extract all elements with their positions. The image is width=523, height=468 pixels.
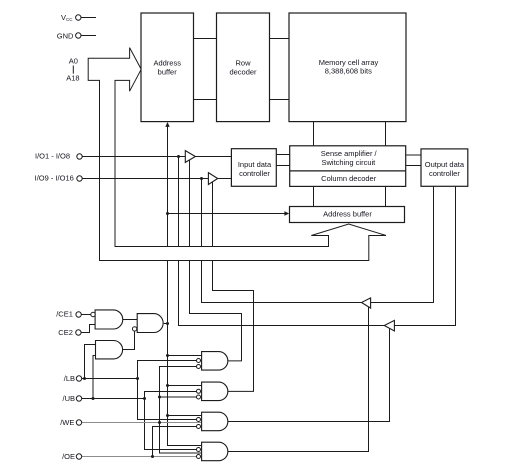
buffer B1 (I/O1 input buffer) — [185, 151, 195, 163]
wire gate G1 output to gate G2 — [123, 319, 138, 321]
wire sense amplifier to output data controller (lower) — [406, 165, 421, 167]
bubble G7 input 4 — [197, 455, 201, 459]
pin circle /UB — [76, 396, 81, 401]
wire /UB pin line — [82, 398, 145, 400]
wire /WE pin line (gray) — [82, 422, 202, 424]
wire V3 from input buffer B1 to gate G4 output — [190, 160, 242, 361]
wire /LB pin line — [82, 378, 138, 380]
junction dots — [83, 155, 203, 458]
svg-text:/UB: /UB — [62, 394, 75, 403]
arrowhead into top address buffer — [165, 122, 169, 127]
gate G7 — [202, 442, 228, 461]
wire V1 branch to gate G6 — [168, 415, 202, 417]
wire gate G2 output stub to V1 — [164, 323, 168, 325]
svg-text:A18: A18 — [66, 74, 79, 83]
wire row decoder to memory cell array (upper) — [270, 38, 290, 40]
node V1 branch G4 — [166, 354, 169, 357]
node I/O1 tap — [177, 155, 180, 158]
wire I/O9-I/O16 pin line — [82, 178, 208, 180]
svg-text:8,388,608 bits: 8,388,608 bits — [325, 66, 372, 75]
gate G2 — [137, 314, 163, 333]
wire input data controller to sense amplifier (upper) — [276, 154, 289, 156]
bubble G4 input 2 — [197, 359, 201, 363]
svg-text:Column decoder: Column decoder — [321, 174, 377, 183]
wire gate G7 output to output buffer T1 — [228, 307, 369, 452]
svg-text:A0: A0 — [69, 56, 78, 65]
pin circle /OE — [76, 454, 81, 459]
svg-text:controller: controller — [239, 169, 270, 178]
wire /WE branch to G5 bubble — [160, 396, 197, 398]
bubble G7 input 2 — [197, 448, 201, 452]
node V1 to lower address buffer line — [166, 212, 169, 215]
bubble G6 input 4 — [197, 425, 201, 429]
svg-text:Input data: Input data — [238, 160, 272, 169]
node I/O9 tap — [200, 177, 203, 180]
buffer B2 (I/O9 input buffer) — [208, 173, 217, 185]
svg-text:Address: Address — [153, 58, 181, 67]
svg-text:CE2: CE2 — [58, 328, 73, 337]
wire sense amplifier to output data controller (upper) — [406, 154, 421, 156]
svg-text:Switching circuit: Switching circuit — [322, 158, 377, 167]
node /OE branch — [151, 455, 154, 458]
wire V1 branch to gate G4 — [168, 355, 202, 357]
gate G6 — [202, 412, 228, 431]
pin circle CE2 — [76, 330, 81, 335]
svg-text:controller: controller — [429, 169, 460, 178]
arrowhead into lower address buffer — [284, 211, 289, 215]
buffer T1 (output buffer, points left) — [362, 298, 371, 308]
wire column decoder to lower address buffer (right) — [385, 186, 387, 206]
wire column decoder to lower address buffer (left) — [313, 186, 315, 206]
node /UB branch — [143, 397, 146, 400]
node /LB to G3 — [83, 377, 86, 380]
tick between A0 and A18 — [72, 66, 74, 74]
bubble G4 input 3 — [197, 365, 201, 369]
wire Vcc stub — [81, 17, 96, 19]
svg-text:buffer: buffer — [158, 68, 178, 77]
node G2 output joins V1 — [166, 322, 169, 325]
wire /CE1 pin to G1 bubble — [81, 314, 91, 316]
wire data tap V2 from I/O1 line to output buffer T2 — [179, 157, 385, 326]
divider sense amplifier / column decoder — [290, 170, 406, 172]
wire gate G3 input 1 from /LB — [85, 345, 96, 379]
pin circle /LB — [76, 376, 81, 381]
gate G4 — [202, 352, 228, 371]
gate G3 — [96, 341, 123, 359]
wire memory array to sense amplifier (right) — [385, 122, 387, 146]
svg-text:I/O1 - I/O8: I/O1 - I/O8 — [35, 151, 70, 160]
pin circle /WE — [76, 420, 81, 425]
wire row decoder to memory cell array (lower) — [270, 99, 290, 101]
wire output buffer T2 to output data controller right pin — [394, 186, 455, 325]
bubble G5 input 2 — [197, 389, 201, 393]
wire memory array to sense amplifier (left) — [313, 122, 315, 146]
node V1 branch G5 — [166, 384, 169, 387]
svg-text:/CE1: /CE1 — [56, 309, 73, 318]
bubble G6 input 2 — [197, 418, 201, 422]
svg-text:Sense amplifier /: Sense amplifier / — [321, 149, 378, 158]
pin circle /CE1 — [76, 312, 81, 317]
bubble G1 input /CE1 — [91, 312, 95, 316]
wire address buffer to row decoder (lower) — [194, 99, 217, 101]
node /WE branch — [158, 421, 161, 424]
bubble G5 input 3 — [197, 395, 201, 399]
block row decoder — [217, 13, 270, 122]
node V1 branch G6 — [166, 414, 169, 417]
block memory cell array — [289, 13, 406, 122]
wire I/O1-I/O8 pin line — [82, 156, 185, 158]
wire gate G3 output to G2 input bubble — [123, 331, 135, 350]
buffer T2 (output buffer, points left) — [384, 320, 394, 331]
wire gate G6 output to output buffer T2 — [228, 329, 390, 422]
block address buffer (top) — [141, 13, 194, 122]
block address buffer (lower) — [290, 207, 405, 223]
wire I/O bus vertical V1 (chip-enable net) — [168, 124, 202, 445]
svg-text:/OE: /OE — [62, 452, 75, 461]
wire V5 from input buffer B2 to gate G5 output — [213, 182, 254, 391]
wire gate G3 input 2 from /UB — [93, 356, 96, 399]
block sense amplifier + column decoder — [290, 146, 406, 187]
wire V1 branch to gate G5 — [168, 385, 202, 387]
wire /LB branch to G4 and G6 bubbles — [138, 361, 197, 420]
svg-text:decoder: decoder — [229, 68, 257, 77]
block output data controller — [421, 149, 468, 186]
svg-text:Address buffer: Address buffer — [323, 210, 372, 219]
pin circle GND — [76, 33, 81, 38]
node /LB branch — [136, 377, 139, 380]
wire data tap V4 from I/O9 line to output buffer T1 — [202, 179, 362, 303]
wire /WE branch to G4,G5,G7 — [160, 367, 202, 454]
svg-text:/WE: /WE — [60, 418, 74, 427]
gate G5 — [202, 382, 228, 401]
wire /UB branch to G5 and G7 bubbles — [145, 392, 197, 450]
svg-text:I/O9 - I/O16: I/O9 - I/O16 — [35, 174, 74, 183]
address bus hollow arrow (A0-A18 into address buffer, down and into lower address buffer) — [88, 48, 386, 261]
wire buffer B1 output to input data controller — [195, 156, 231, 158]
svg-text:/LB: /LB — [64, 374, 75, 383]
wire GND stub — [81, 35, 96, 37]
node /UB to G3 — [92, 397, 95, 400]
pin circle I/O9-I/O16 — [77, 176, 82, 181]
wire horizontal to lower address buffer — [168, 213, 286, 215]
wire CE2 pin to G1 input — [81, 325, 95, 333]
bubble G2 lower input — [132, 327, 136, 331]
gate G1 (/CE1,CE2) — [95, 310, 123, 329]
wire /OE pin line (gray) — [82, 456, 197, 458]
node /WE to G5 bubble — [158, 396, 161, 399]
wire input data controller to sense amplifier (lower) — [276, 165, 289, 167]
wire output buffer T1 to output data controller left pin — [371, 186, 434, 302]
svg-text:Row: Row — [235, 58, 251, 67]
svg-text:Output data: Output data — [425, 160, 465, 169]
wire /OE branch to G6 bubble — [153, 427, 197, 457]
block input data controller — [231, 149, 276, 187]
wire buffer B2 output to input data controller — [218, 178, 232, 180]
svg-text:GND: GND — [57, 32, 74, 41]
pin circle I/O1-I/O8 — [77, 154, 82, 159]
wire address buffer to row decoder (upper) — [194, 38, 217, 40]
pin circle Vcc — [76, 15, 81, 20]
